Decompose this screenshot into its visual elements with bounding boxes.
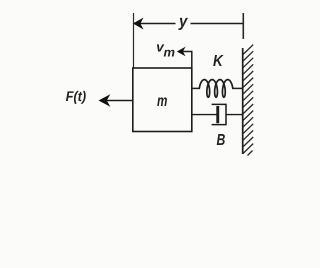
label y [178,18,188,30]
spring K : left lead wire [192,87,200,89]
velocity arrow v_m : riser from mass corner [191,52,193,69]
damper B : cylinder (open left) [212,104,226,124]
velocity arrowhead [177,47,186,57]
force arrowhead [99,94,111,107]
spring K : coil [199,80,233,98]
dimension line y (right segment) [191,23,244,25]
label m [157,97,167,106]
label K [213,55,223,66]
wall hatching [243,45,253,156]
label B [217,134,225,145]
label F(t) [66,91,86,104]
mass m (block) [133,68,192,132]
dimension arrowhead (points left) [133,18,144,30]
velocity arrow v_m : horizontal shaft [183,51,193,53]
spring K : right lead wire [233,87,243,89]
dimension line y (left segment) [134,23,176,25]
dimension tick (right, at wall) [242,13,244,39]
label v (of v_m) [157,44,164,51]
force arrow F(t) : shaft [105,100,133,102]
damper B : rod to wall (right) [226,114,243,116]
wall line [242,48,244,154]
damper B : piston rod (left) [192,114,217,116]
dimension extension line (vertical, above mass top-left) [133,13,135,68]
label m subscript (of v_m) [164,50,175,57]
damper B : piston plate [216,106,219,123]
